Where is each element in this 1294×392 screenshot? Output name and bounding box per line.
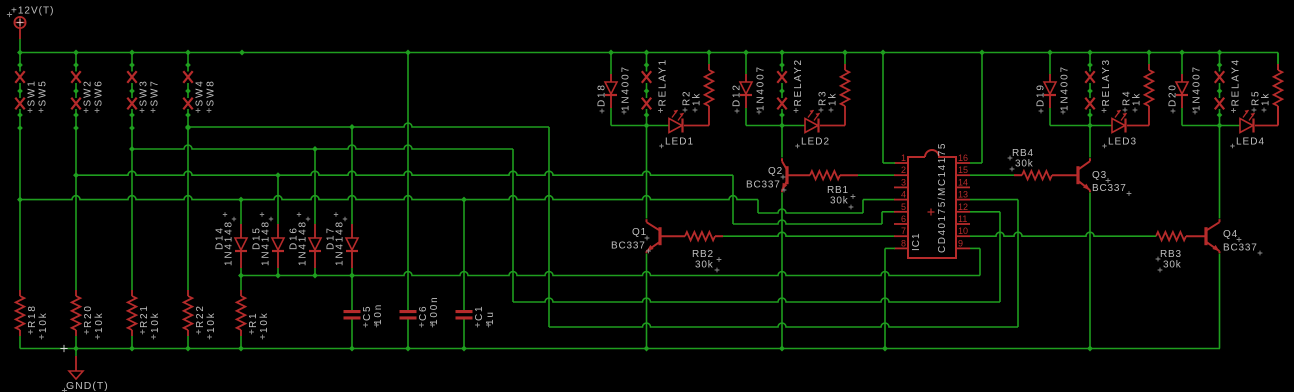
svg-text:C1: C1 xyxy=(474,305,485,321)
svg-text:SW8: SW8 xyxy=(206,79,217,106)
svg-text:Q1: Q1 xyxy=(632,227,647,238)
svg-text:SW4: SW4 xyxy=(195,79,206,106)
svg-text:Q3: Q3 xyxy=(1092,170,1107,181)
svg-text:RELAY4: RELAY4 xyxy=(1231,58,1242,106)
svg-text:1k: 1k xyxy=(1132,92,1143,106)
svg-text:2: 2 xyxy=(901,165,906,175)
svg-text:CD40175/MC14175: CD40175/MC14175 xyxy=(937,142,948,253)
svg-text:LED1: LED1 xyxy=(665,137,694,148)
svg-text:8: 8 xyxy=(901,238,906,248)
svg-text:7: 7 xyxy=(901,226,906,236)
svg-text:SW5: SW5 xyxy=(38,79,49,106)
svg-text:30k: 30k xyxy=(830,196,849,207)
svg-text:6: 6 xyxy=(901,214,906,224)
svg-text:4: 4 xyxy=(901,190,906,200)
svg-text:9: 9 xyxy=(958,238,963,248)
svg-text:1k: 1k xyxy=(1261,92,1272,106)
svg-text:R18: R18 xyxy=(27,304,38,328)
svg-text:30k: 30k xyxy=(695,260,714,271)
svg-text:SW1: SW1 xyxy=(27,79,38,106)
svg-text:30k: 30k xyxy=(1015,159,1034,170)
svg-text:RELAY2: RELAY2 xyxy=(793,58,804,106)
svg-text:10n: 10n xyxy=(373,303,384,325)
svg-text:1N4007: 1N4007 xyxy=(1192,65,1203,111)
svg-text:1N4148: 1N4148 xyxy=(224,220,235,266)
svg-text:BC337: BC337 xyxy=(746,180,781,191)
svg-text:SW7: SW7 xyxy=(150,79,161,106)
svg-text:RB2: RB2 xyxy=(692,249,714,260)
svg-text:D19: D19 xyxy=(1036,83,1047,107)
svg-text:C5: C5 xyxy=(362,305,373,321)
svg-text:C6: C6 xyxy=(418,305,429,321)
svg-text:SW6: SW6 xyxy=(94,79,105,106)
svg-text:14: 14 xyxy=(958,177,968,187)
svg-text:R21: R21 xyxy=(139,304,150,328)
svg-text:RELAY1: RELAY1 xyxy=(658,58,669,106)
svg-text:RB4: RB4 xyxy=(1012,148,1034,159)
svg-text:Q4: Q4 xyxy=(1223,229,1238,240)
svg-text:1N4007: 1N4007 xyxy=(621,65,632,111)
svg-text:1N4148: 1N4148 xyxy=(298,220,309,266)
svg-text:1N4148: 1N4148 xyxy=(261,220,272,266)
svg-text:1N4148: 1N4148 xyxy=(335,220,346,266)
svg-text:RB1: RB1 xyxy=(827,185,849,196)
svg-text:D12: D12 xyxy=(732,83,743,107)
svg-text:10k: 10k xyxy=(206,311,217,333)
svg-text:1u: 1u xyxy=(485,310,496,325)
svg-text:R22: R22 xyxy=(195,304,206,328)
svg-text:5: 5 xyxy=(901,202,906,212)
svg-text:10k: 10k xyxy=(259,311,270,333)
svg-text:R20: R20 xyxy=(83,304,94,328)
svg-text:13: 13 xyxy=(958,190,968,200)
svg-text:BC337: BC337 xyxy=(1223,243,1258,254)
svg-text:1k: 1k xyxy=(828,92,839,106)
svg-text:R1: R1 xyxy=(248,312,259,328)
svg-text:SW3: SW3 xyxy=(139,79,150,106)
svg-text:10k: 10k xyxy=(94,311,105,333)
svg-text:BC337: BC337 xyxy=(1092,183,1127,194)
svg-text:11: 11 xyxy=(958,214,967,224)
svg-text:1: 1 xyxy=(901,153,906,163)
svg-text:10k: 10k xyxy=(38,311,49,333)
svg-text:100n: 100n xyxy=(429,296,440,325)
svg-text:IC1: IC1 xyxy=(911,232,922,251)
svg-text:10k: 10k xyxy=(150,311,161,333)
svg-text:RB3: RB3 xyxy=(1160,249,1182,260)
svg-text:RELAY3: RELAY3 xyxy=(1101,58,1112,106)
svg-text:3: 3 xyxy=(901,177,906,187)
svg-text:SW2: SW2 xyxy=(83,79,94,106)
svg-text:LED2: LED2 xyxy=(801,137,830,148)
svg-text:+12V(T): +12V(T) xyxy=(11,6,54,17)
svg-text:10: 10 xyxy=(958,226,968,236)
svg-text:LED4: LED4 xyxy=(1236,137,1265,148)
svg-text:1N4007: 1N4007 xyxy=(756,65,767,111)
svg-text:16: 16 xyxy=(958,153,968,163)
svg-text:D18: D18 xyxy=(597,83,608,107)
svg-text:1k: 1k xyxy=(692,92,703,106)
svg-text:1N4007: 1N4007 xyxy=(1060,65,1071,111)
svg-text:Q2: Q2 xyxy=(768,166,783,177)
svg-text:BC337: BC337 xyxy=(611,241,646,252)
svg-text:LED3: LED3 xyxy=(1108,137,1137,148)
svg-text:GND(T): GND(T) xyxy=(66,380,109,392)
svg-text:D20: D20 xyxy=(1168,83,1179,107)
svg-text:12: 12 xyxy=(958,202,968,212)
svg-text:15: 15 xyxy=(958,165,968,175)
svg-text:30k: 30k xyxy=(1163,260,1182,271)
